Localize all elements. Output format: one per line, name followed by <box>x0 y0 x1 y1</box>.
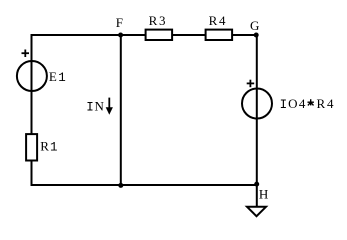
svg-text:H: H <box>259 187 268 202</box>
wire bottom horizontal rail <box>31 184 258 186</box>
voltage source E1 <box>17 61 47 91</box>
ground <box>247 207 266 216</box>
svg-text:R1: R1 <box>40 139 57 155</box>
asterisk of IO4*R4 drawn as strokes <box>308 99 314 105</box>
node H <box>254 182 259 187</box>
svg-text:R3: R3 <box>149 13 166 28</box>
wire top horizontal F-G rail <box>31 34 258 36</box>
resistor R4 <box>206 30 233 40</box>
E1 polarity + <box>22 50 30 58</box>
dependent source IO4*R4 <box>242 89 272 119</box>
node F <box>118 33 123 38</box>
svg-text:R4: R4 <box>209 13 226 28</box>
node G <box>254 33 259 38</box>
resistor R1 <box>26 134 37 160</box>
node junction bottom middle <box>118 183 123 188</box>
source polarity + <box>247 80 255 88</box>
current arrow IN <box>108 98 110 110</box>
resistor R3 <box>146 30 173 40</box>
svg-text:E1: E1 <box>49 69 66 85</box>
svg-text:IN: IN <box>86 99 104 115</box>
svg-text:F: F <box>116 15 123 30</box>
wire right vertical (G to H to ground) <box>256 35 258 207</box>
wire left vertical (E1 branch) <box>31 34 33 186</box>
svg-text:G: G <box>250 18 259 33</box>
wire middle vertical (node F to bottom rail) <box>120 35 122 185</box>
